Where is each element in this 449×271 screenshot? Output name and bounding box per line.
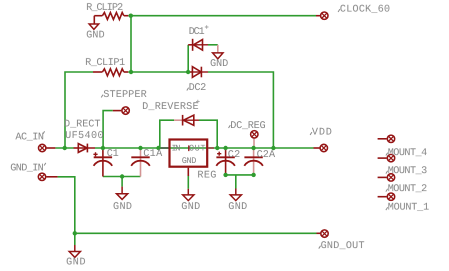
node junction C1A	[138, 146, 142, 150]
pin MOUNT_1 connector	[387, 193, 394, 200]
wire bus2 GND tap	[235, 175, 237, 189]
svg-text:MOUNT_4: MOUNT_4	[388, 148, 428, 159]
svg-text:C1: C1	[107, 149, 119, 160]
pin DC_REG lead	[253, 139, 255, 149]
tick mark GND_IN	[44, 163, 46, 166]
pin MOUNT_1 stub	[378, 196, 387, 198]
wire DC1 left drop	[187, 45, 189, 72]
wire R_CLIP1 left to AC_IN node	[65, 72, 93, 148]
diode D_REVERSE	[174, 115, 199, 126]
pin STEPPER connector	[122, 107, 129, 114]
node junction bus1 tap	[120, 174, 124, 178]
wire main rail D_RECT to REG	[95, 147, 159, 149]
svg-text:D_REVERSE: D_REVERSE	[142, 102, 199, 113]
pin AC_IN connector	[39, 144, 46, 151]
pin DC_REG connector	[251, 131, 258, 138]
node junction bus2 right	[251, 173, 255, 177]
pin GND_OUT connector	[321, 230, 328, 237]
svg-text:MOUNT_2: MOUNT_2	[388, 184, 428, 195]
node junction DC2 drop	[271, 146, 275, 150]
svg-text:OUT: OUT	[189, 144, 206, 154]
wire REG OUT to VDD pin (runs through REG box)	[170, 147, 314, 149]
voltage regulator U REG box	[170, 140, 208, 167]
svg-text:DC_REG: DC_REG	[230, 121, 265, 132]
tick mark MOUNT_1	[386, 207, 388, 210]
node junction DC1/DC2	[186, 70, 190, 74]
pin GND_IN connector	[38, 173, 45, 180]
node junction C2A / DC_REG	[251, 146, 255, 150]
svg-text:STEPPER: STEPPER	[103, 90, 147, 101]
pin GND_IN stub	[46, 176, 57, 178]
wire bus1 GND tap	[121, 177, 123, 187]
wire D_REVERSE loop left	[160, 120, 174, 148]
svg-text:GND_OUT: GND_OUT	[321, 241, 365, 252]
svg-text:GND: GND	[113, 202, 132, 213]
node junction GND rail	[73, 231, 77, 235]
tick mark MOUNT_4	[386, 153, 388, 156]
svg-text:DC2: DC2	[189, 83, 207, 94]
svg-text:GND: GND	[181, 202, 200, 213]
wire DC2 right to VDD node	[208, 72, 273, 148]
svg-text:C2A: C2A	[257, 150, 276, 161]
node junction R_CLIP1 right	[129, 70, 133, 74]
pin MOUNT_4 stub	[378, 138, 387, 140]
node junction C1/STEPPER	[101, 146, 105, 150]
resistor R_CLIP1	[93, 69, 128, 76]
svg-text:GND: GND	[86, 30, 105, 41]
pin MOUNT_3 connector	[387, 154, 394, 161]
svg-text:R_CLIP2: R_CLIP2	[86, 3, 123, 14]
pin AC_IN stub	[47, 147, 56, 149]
node junction REG IN / D_REVERSE left	[156, 146, 160, 150]
svg-text:MOUNT_1: MOUNT_1	[388, 202, 430, 213]
wire net N$CLOCK top rail	[128, 15, 316, 17]
capacitor C2A	[244, 148, 263, 175]
wire DC1 right to GND	[208, 44, 218, 46]
diode DC1	[188, 39, 208, 51]
wire main rail AC_IN	[55, 147, 73, 149]
wire bus1 C1-C1A ground bus	[103, 176, 141, 178]
pin MOUNT_2 connector	[387, 174, 394, 181]
pin CLOCK_60 connector	[321, 12, 328, 19]
node junction AC_IN	[62, 146, 66, 150]
tick mark MOUNT_2	[386, 189, 388, 192]
pin label OUT plus tick	[188, 145, 190, 151]
svg-text:GND: GND	[228, 202, 247, 213]
tick mark STEPPER	[101, 95, 103, 98]
ground GND bottom left	[69, 245, 80, 257]
svg-text:R_CLIP1: R_CLIP1	[85, 58, 125, 69]
svg-text:C2: C2	[228, 150, 241, 161]
node junction REG OUT / D_REVERSE right	[215, 146, 219, 150]
pin MOUNT_4 connector	[387, 135, 394, 142]
wire REG GND pin lower	[187, 176, 189, 189]
tick mark GND_OUT	[319, 246, 321, 249]
wire R_CLIP1 right to DC2 node	[128, 71, 188, 73]
svg-text:UF5400: UF5400	[65, 131, 104, 142]
ground GND at REG	[183, 189, 194, 201]
svg-text:REG: REG	[197, 170, 216, 181]
ground GND at bus2	[230, 189, 241, 201]
ground GND at bus1	[117, 187, 128, 200]
ground GND REG stem red	[187, 175, 189, 178]
tick mark DC2	[187, 88, 189, 91]
wire GND drop bottom left	[74, 233, 76, 245]
pin lead DC1 GND drop	[217, 45, 219, 53]
capacitor C1A	[131, 148, 150, 177]
svg-text:MOUNT_3: MOUNT_3	[388, 166, 428, 177]
wire STEPPER branch	[103, 111, 113, 148]
wire bus2 C2-C2A ground bus	[226, 174, 254, 176]
tick mark MOUNT_3	[386, 171, 388, 174]
pin VDD connector	[320, 144, 327, 151]
node junction C2	[223, 146, 227, 150]
svg-text:VDD: VDD	[312, 128, 332, 139]
node junction bus2 left	[223, 173, 227, 177]
svg-text:D_RECT: D_RECT	[64, 119, 101, 130]
node junction R_CLIP2 right	[129, 14, 133, 18]
pin CLOCK_60 stub	[316, 15, 320, 17]
wire vertical R_CLIP2 to R_CLIP1	[130, 16, 132, 72]
resistor R_CLIP2	[94, 13, 128, 24]
pin REG GND stub	[187, 168, 189, 176]
wire REG IN pin dark	[159, 147, 170, 149]
tick mark AC_IN	[43, 131, 45, 134]
tick mark DC_REG	[229, 125, 231, 128]
pin REG OUT stub	[208, 147, 214, 149]
ground GND at DC1	[213, 53, 223, 59]
svg-text:IN: IN	[171, 144, 180, 154]
svg-text:GND: GND	[66, 258, 86, 269]
wire GND_IN to GND_OUT rail	[58, 177, 317, 234]
ground GND at R_CLIP2	[89, 24, 99, 29]
capacitor C2	[216, 148, 235, 175]
pin STEPPER stub	[113, 110, 122, 112]
capacitor C1	[93, 148, 112, 177]
svg-text:CLOCK_60: CLOCK_60	[340, 4, 390, 15]
pin MOUNT_2 stub	[378, 176, 387, 178]
diode DC2	[188, 67, 208, 78]
tick mark VDD	[310, 132, 312, 135]
svg-text:GND: GND	[182, 156, 197, 166]
svg-text:DC1: DC1	[189, 27, 205, 38]
pin VDD stub	[314, 147, 320, 149]
wire D_REVERSE loop right	[199, 120, 217, 148]
pin MOUNT_3 stub	[378, 157, 387, 159]
svg-text:GND: GND	[210, 59, 228, 70]
pin GND_OUT stub	[317, 232, 321, 234]
svg-text:AC_IN: AC_IN	[15, 132, 44, 143]
svg-text:GND_IN: GND_IN	[10, 163, 44, 174]
svg-text:C1A: C1A	[143, 149, 163, 160]
diode D_RECT	[74, 144, 96, 153]
tick mark CLOCK_60	[338, 9, 340, 12]
